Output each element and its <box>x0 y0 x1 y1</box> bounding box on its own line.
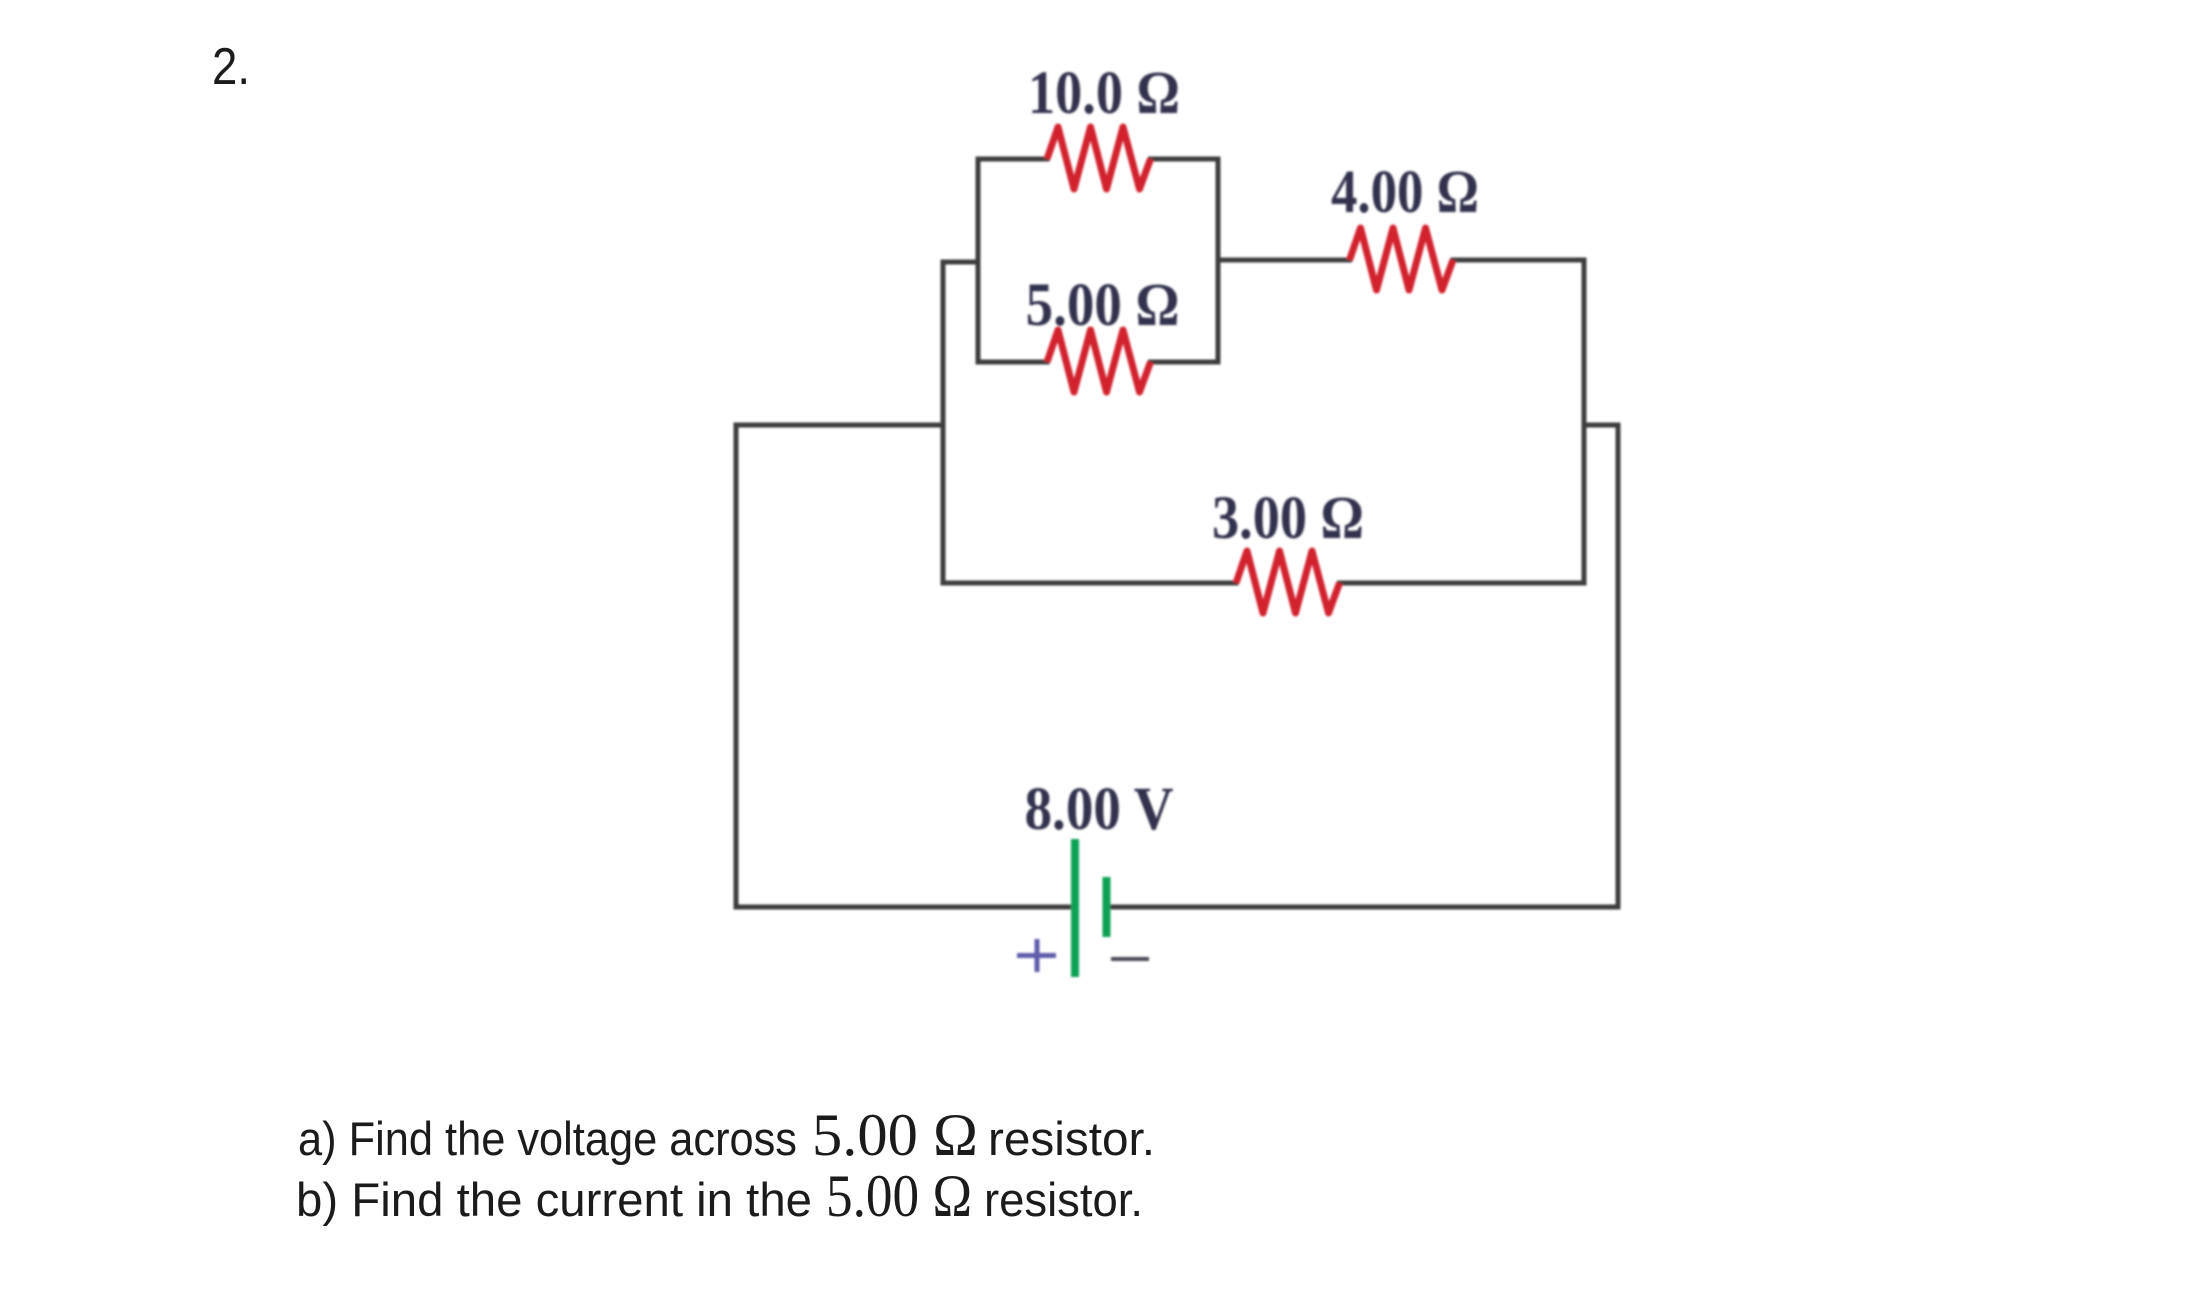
svg-text:4.00 Ω: 4.00 Ω <box>1331 159 1479 226</box>
svg-text:5.00 Ω: 5.00 Ω <box>1026 272 1180 339</box>
svg-text:2.: 2. <box>212 38 250 96</box>
svg-text:a) Find the voltage across: a) Find the voltage across <box>298 1112 797 1165</box>
svg-text:5.00 Ω: 5.00 Ω <box>812 1102 978 1168</box>
svg-text:5.00 Ω: 5.00 Ω <box>826 1163 972 1229</box>
svg-text:resistor.: resistor. <box>984 1173 1143 1226</box>
svg-text:8.00 V: 8.00 V <box>1025 776 1174 843</box>
svg-text:resistor.: resistor. <box>988 1112 1155 1165</box>
svg-text:3.00 Ω: 3.00 Ω <box>1212 485 1364 552</box>
svg-text:b) Find the current in the: b) Find the current in the <box>296 1173 812 1226</box>
svg-text:10.0 Ω: 10.0 Ω <box>1028 60 1180 127</box>
